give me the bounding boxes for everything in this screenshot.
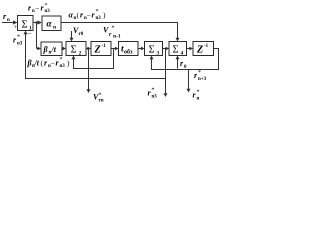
svg-text:rn: rn — [99, 99, 104, 104]
svg-text:r0: r0 — [79, 32, 84, 37]
svg-text:): ) — [103, 11, 106, 20]
svg-text:n3: n3 — [96, 16, 102, 21]
wire: Z1b loop back into S3 bottom — [152, 49, 219, 70]
wire: rn input into S1 — [2, 22, 14, 24]
node tap between S1 and alpha — [36, 23, 38, 49]
svg-text:Z: Z — [94, 45, 101, 56]
svg-text:n3: n3 — [152, 95, 158, 100]
wire: rn smoothed output drop — [188, 70, 190, 90]
arrowhead: into S1 bottom (rn3 feedback) — [24, 31, 28, 35]
gain t-obz — [119, 42, 139, 56]
arrowhead: into S3 bottom (loop) — [150, 56, 154, 60]
wire: Vrn output drop — [88, 49, 90, 91]
svg-text:r: r — [109, 32, 112, 38]
wire: tobz to S3 — [138, 48, 142, 50]
svg-text:n+3: n+3 — [198, 77, 207, 82]
arrowhead: into tobz — [115, 47, 119, 51]
junction dot — [36, 22, 38, 24]
arrowhead: into S2 left — [62, 47, 66, 51]
arrowhead: Vrn output down — [87, 89, 91, 93]
svg-text:n-1: n-1 — [113, 34, 121, 40]
svg-text:–: – — [86, 11, 91, 19]
arrowhead: into S2 top (Vr0) — [70, 38, 74, 42]
wire: Z1a to tobz — [111, 48, 116, 50]
summer S3 — [145, 42, 163, 56]
svg-text:Σ: Σ — [71, 45, 77, 56]
wire: S3 to S4 — [163, 48, 167, 50]
svg-text:/t: /t — [34, 59, 40, 68]
arrowhead: into S4 top — [176, 38, 180, 42]
wire: S2 feedback via Z1a tap — [74, 49, 114, 69]
svg-text:): ) — [67, 59, 70, 68]
svg-text:*: * — [60, 57, 63, 63]
svg-text:/t: /t — [51, 45, 57, 54]
svg-text:*: * — [96, 9, 99, 15]
svg-text:обз: обз — [124, 49, 133, 56]
arrowhead: into Z1b — [189, 47, 193, 51]
svg-text:n3: n3 — [17, 42, 23, 47]
gain alpha-n — [42, 16, 61, 31]
arrowhead: rn3 output down — [164, 93, 168, 97]
svg-text:2: 2 — [79, 51, 82, 57]
svg-text:n: n — [197, 97, 200, 102]
svg-text:-1: -1 — [102, 44, 107, 49]
svg-text:–: – — [27, 29, 32, 37]
svg-text:-1: -1 — [204, 44, 209, 49]
svg-text:*: * — [198, 70, 201, 76]
svg-text:3: 3 — [157, 51, 160, 57]
svg-text:*: * — [197, 90, 200, 96]
svg-text:Σ: Σ — [173, 45, 179, 56]
summer S1 — [18, 16, 34, 31]
arrowhead: into S3 left — [141, 47, 145, 51]
wire: long rn3 feedback to S1 bottom — [26, 34, 166, 79]
wire: alpha output long top line into S4 — [61, 23, 178, 39]
svg-text:n: n — [53, 25, 56, 31]
wire: Vr0 initial input into S2 top — [71, 31, 73, 39]
svg-text:Z: Z — [196, 45, 203, 56]
svg-text:–: – — [50, 59, 55, 67]
wire: rn3 extrapolated output drop — [165, 49, 167, 95]
arrowhead: into S4 left — [166, 47, 169, 51]
svg-text:n3: n3 — [60, 64, 66, 69]
svg-text:Σ: Σ — [149, 45, 155, 56]
wire: beta to S2 — [62, 48, 64, 50]
arrowhead + junction: into alpha — [38, 20, 43, 24]
arrowhead: into beta — [37, 47, 41, 51]
delay Z-1 b — [193, 42, 214, 56]
summer S2 — [66, 42, 86, 56]
wire: S1 to alpha block — [33, 22, 39, 24]
wire: tap into beta block — [37, 48, 39, 50]
arrowhead: into Z1a — [87, 47, 91, 51]
arrowhead: into S1 input — [13, 20, 18, 24]
arrowhead: into S2 bottom (feedback) — [72, 56, 76, 60]
delay Z-1 a — [91, 42, 111, 56]
wire: S4 to Z1b — [187, 48, 191, 50]
svg-text:–: – — [35, 4, 40, 12]
svg-text:*: * — [112, 26, 115, 32]
svg-text:*: * — [152, 88, 155, 94]
svg-text:n: n — [7, 18, 10, 23]
gain beta-n/t — [41, 42, 62, 56]
summer S4 — [169, 42, 187, 56]
wire: r0 initial input into S4 bottom — [177, 59, 179, 69]
svg-text:n3: n3 — [45, 9, 51, 14]
svg-text:*: * — [17, 35, 20, 41]
svg-text:4: 4 — [181, 51, 184, 57]
arrowhead: rn output down — [187, 89, 191, 93]
arrowhead: into S4 bottom (r0) — [176, 56, 180, 60]
wire: S2 to Z1a — [86, 48, 89, 50]
svg-text:+: + — [14, 25, 18, 31]
